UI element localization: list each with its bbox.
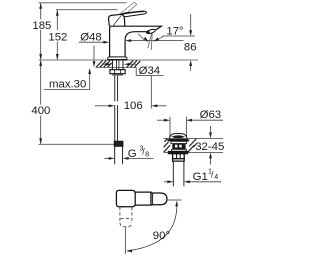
G 3/8 dimension bbox=[104, 157, 109, 159]
drain cap flange bbox=[167, 139, 189, 141]
dimension line 185 bbox=[40, 3, 42, 60]
svg-text:G1: G1 bbox=[193, 171, 208, 183]
90 degree arc bbox=[129, 205, 177, 251]
Ø63 extension lines bbox=[170, 117, 187, 136]
hose connector bbox=[114, 141, 123, 146]
aerator bbox=[146, 29, 156, 35]
drain tailpiece tube bbox=[173, 161, 184, 186]
svg-text:400: 400 bbox=[31, 105, 50, 117]
drain deck hatch right bbox=[188, 139, 197, 152]
dimension 106 bbox=[95, 105, 109, 107]
G1 1/4 dimension bbox=[164, 181, 168, 183]
spray axis tilted 17deg line bbox=[148, 33, 152, 48]
drain collar below deck bbox=[168, 151, 188, 153]
svg-text:max.30: max.30 bbox=[49, 79, 86, 91]
rotated handle centerline bbox=[125, 228, 127, 255]
drain deck lines (32-45) bbox=[164, 137, 224, 139]
svg-text:106: 106 bbox=[124, 100, 143, 112]
dimension line 86 bbox=[190, 14, 192, 30]
svg-text:Ø63: Ø63 bbox=[200, 109, 222, 121]
top view grip block bbox=[116, 190, 135, 206]
faucet phantom raised lever bbox=[111, 2, 137, 24]
spray axis vertical line bbox=[150, 33, 153, 50]
drain deck hatch left bbox=[164, 139, 171, 153]
deck hatching right of faucet bbox=[127, 60, 141, 67]
svg-text:8: 8 bbox=[145, 149, 149, 158]
deck hatching left of faucet bbox=[96, 60, 111, 67]
threaded rod bbox=[115, 76, 118, 141]
svg-text:4: 4 bbox=[214, 172, 218, 181]
Ø34 leader step bbox=[135, 68, 137, 76]
drain valve body through deck bbox=[171, 141, 187, 143]
svg-text:86: 86 bbox=[184, 42, 197, 54]
shank through deck bbox=[112, 60, 123, 70]
extension line right bbox=[167, 199, 182, 201]
mounting nut under deck bbox=[110, 70, 125, 74]
reference line top (185 height, raised lever) bbox=[39, 2, 127, 4]
reference line (152 height, lever tip) bbox=[56, 9, 118, 11]
svg-text:90°: 90° bbox=[153, 230, 170, 242]
Ø48 down leader at base bbox=[93, 46, 95, 62]
32-45 arrows bbox=[210, 126, 212, 133]
Ø48 dimension right arrow bbox=[130, 40, 183, 42]
svg-text:32-45: 32-45 bbox=[195, 141, 224, 153]
faucet handle dome bbox=[109, 14, 125, 26]
dimension line 400 bbox=[40, 60, 42, 144]
dashed rotated handle bbox=[120, 207, 132, 227]
counter deck line bbox=[39, 59, 199, 61]
spray angle right wing with 17 deg leader bbox=[158, 36, 164, 39]
extension line spray axis down bbox=[150, 76, 152, 109]
extension line hose end bbox=[39, 143, 114, 145]
svg-text:185: 185 bbox=[32, 20, 51, 32]
hose tube bbox=[115, 146, 123, 164]
top view cap inner line bbox=[152, 193, 154, 205]
deck bottom line at faucet bbox=[96, 67, 137, 69]
faucet handle lever bbox=[120, 11, 147, 17]
svg-text:G: G bbox=[128, 148, 137, 160]
top view body cap bbox=[151, 193, 167, 205]
top view lever mid section bbox=[135, 192, 151, 205]
Ø63 dimension bbox=[157, 119, 165, 121]
spray angle left wing bbox=[138, 34, 144, 40]
drain locknut bbox=[173, 154, 185, 159]
drain washer bbox=[173, 159, 185, 161]
Ø34 hole arrows bbox=[102, 63, 106, 65]
faucet base plinth bbox=[108, 57, 127, 60]
faucet body and spout bbox=[110, 26, 162, 57]
dimension line 152 bbox=[56, 10, 58, 60]
svg-text:152: 152 bbox=[48, 31, 67, 43]
drain push cap bbox=[169, 133, 187, 139]
